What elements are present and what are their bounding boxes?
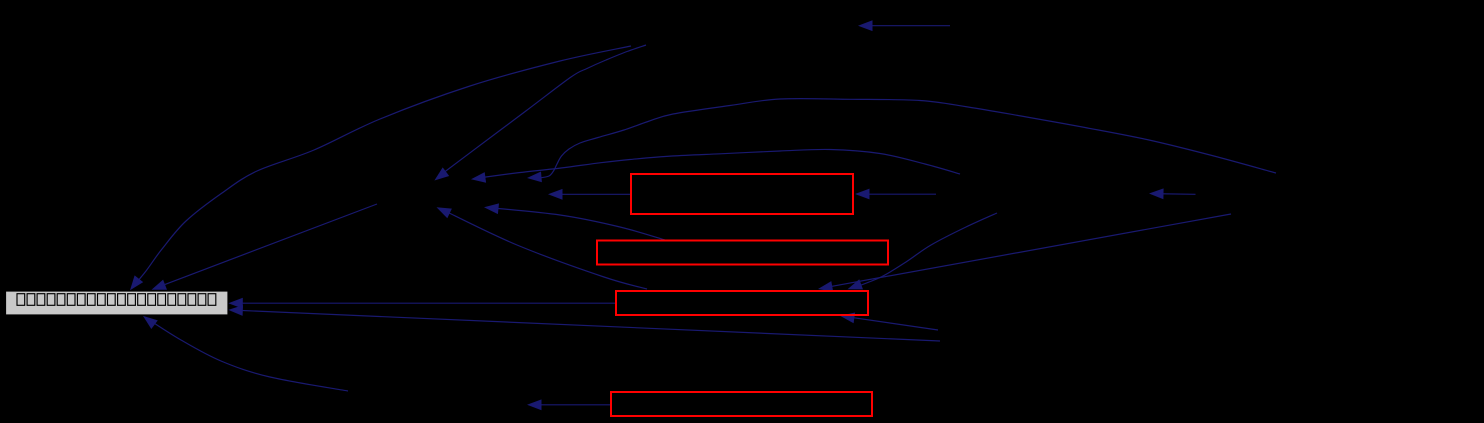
node box4 (red) (611, 392, 872, 416)
edge E8 (straight from invisible hub to gray node) (152, 204, 378, 290)
edge E13 (box4 left, horizontal) (527, 399, 610, 410)
edge E12 (curve from bottom node to gray node bottom) (143, 316, 348, 391)
edge E10 (box3 left to gray node, horizontal) (228, 298, 615, 309)
edge E4 (arc from x=960 to invisible hub) (471, 149, 960, 182)
edge E2 (big arc apex to gray node top) (130, 46, 631, 290)
edge E11 (long shallow line to gray node) (228, 305, 940, 341)
tofu glyph row (missing-glyph boxes) (17, 294, 25, 306)
node box3 (red) (616, 291, 868, 315)
edge E14 (into box1 right, horizontal) (855, 189, 936, 200)
edge E7 (box3 top-left to hub lower-left) (437, 207, 648, 289)
edge E15 (far-right horizontal arrow) (1149, 188, 1196, 199)
node box1 (red) (631, 174, 853, 214)
node gray (current file, lightgray fill) (6, 291, 229, 315)
node box2 (red) (597, 241, 888, 265)
edge E18 (long straight line into box3 top edge) (818, 214, 1231, 292)
edge E6 (box2 top-left to hub bottom) (484, 203, 665, 240)
edge E1 (apex to invisible hub) (434, 45, 646, 181)
edge E17 (S-curve into box3 top edge) (848, 213, 998, 289)
edge E19 (short line into box3 bottom edge) (840, 313, 938, 331)
edge E5 (box1 left to hub, horizontal) (548, 189, 631, 200)
edge E16 (top horizontal arrow) (858, 20, 950, 31)
edge E3 (long top arc from x=1276 with S-hook) (527, 99, 1276, 183)
